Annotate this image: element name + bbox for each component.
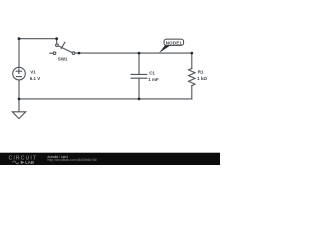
- svg-text:LAB: LAB: [25, 160, 34, 165]
- svg-text:V1: V1: [30, 70, 36, 75]
- svg-text:1 kΩ: 1 kΩ: [197, 76, 207, 81]
- svg-text:SW1: SW1: [58, 57, 68, 62]
- svg-text:R1: R1: [198, 70, 204, 75]
- svg-text:6.1 V: 6.1 V: [30, 76, 41, 81]
- svg-text:NODE1: NODE1: [166, 40, 183, 45]
- svg-text:http:/​/circuitlab.com/c8455b6: http:/​/circuitlab.com/c8455b6b78t/: [48, 158, 97, 162]
- svg-text:C1: C1: [149, 71, 155, 76]
- svg-text:1 mF: 1 mF: [148, 77, 159, 82]
